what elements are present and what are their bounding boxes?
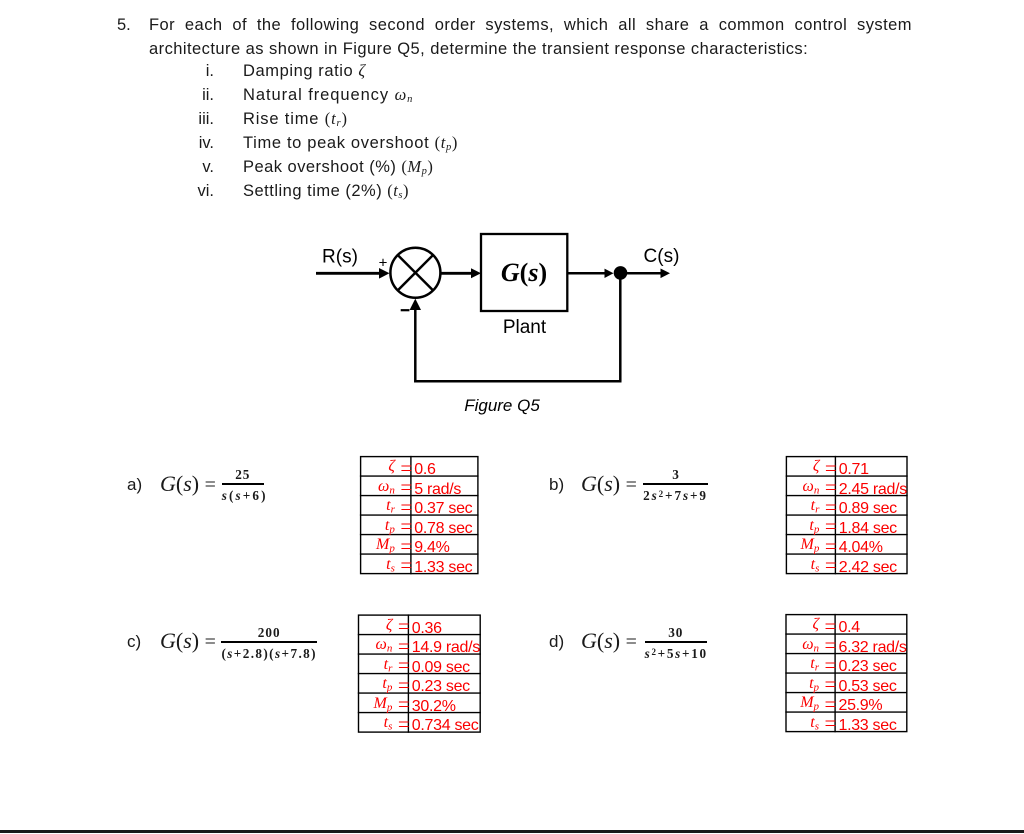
svg-text:Figure Q5: Figure Q5: [464, 396, 540, 415]
table b grid: [786, 456, 908, 574]
formula a): [127, 475, 142, 495]
label Plant: [503, 317, 547, 338]
label G(s): [501, 258, 547, 287]
wire R(s) to summing junction: [316, 268, 390, 279]
bottom rule: [0, 830, 1024, 833]
svg-text:Plant: Plant: [503, 317, 547, 338]
table d grid: [785, 614, 907, 732]
svg-text:R(s): R(s): [322, 247, 358, 268]
list numerals: [154, 59, 214, 203]
wire feedback right vertical: [619, 273, 622, 381]
answer table c: [359, 616, 479, 733]
caption Figure Q5: [464, 396, 540, 415]
list items: [243, 59, 458, 203]
answer table b: [787, 457, 906, 574]
paragraph line 2: [149, 37, 808, 61]
wire node to C(s): [624, 269, 670, 279]
wire feedback bottom horizontal: [414, 380, 621, 383]
label C(s): [644, 246, 680, 267]
wire feedback up to summing junction: [410, 299, 421, 383]
wire summing junction to G(s): [441, 268, 482, 278]
plus sign: [379, 255, 388, 272]
wire G(s) to node: [567, 269, 613, 278]
table a grid: [360, 456, 479, 574]
item number 5: [117, 13, 131, 37]
answer table d: [787, 615, 906, 732]
node junction dot: [614, 266, 628, 280]
formula b): [549, 475, 564, 495]
label R(s): [322, 247, 358, 268]
minus sign: [401, 309, 410, 311]
formula c): [127, 632, 141, 652]
summing junction: [390, 248, 440, 298]
answer table a: [361, 457, 478, 574]
block G(s) Plant: [481, 234, 567, 311]
svg-text:+: +: [379, 255, 388, 272]
table c grid: [358, 614, 481, 732]
paragraph line 1 (justified): [149, 13, 912, 37]
svg-text:C(s): C(s): [644, 246, 680, 267]
svg-text:G(s): G(s): [501, 258, 547, 287]
formula d): [549, 632, 564, 652]
